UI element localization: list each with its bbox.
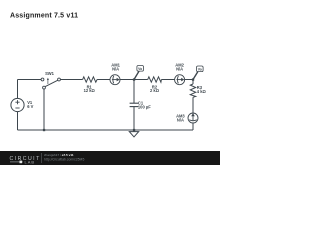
svg-text:12 kΩ: 12 kΩ xyxy=(84,88,96,93)
svg-text:N/A: N/A xyxy=(112,66,119,71)
svg-text:Vo: Vo xyxy=(198,68,202,72)
svg-text:N/A: N/A xyxy=(176,66,183,71)
svg-text:6 V: 6 V xyxy=(27,104,33,109)
svg-text:N/A: N/A xyxy=(177,117,184,122)
svg-text:2 kΩ: 2 kΩ xyxy=(150,88,160,93)
svg-text:4 kΩ: 4 kΩ xyxy=(197,89,207,94)
svg-text:zhangsh17 / a7.5 v11: zhangsh17 / a7.5 v11 xyxy=(44,153,74,157)
svg-text:Vo: Vo xyxy=(138,67,142,71)
svg-text:LAB: LAB xyxy=(25,160,36,165)
svg-text:100 µF: 100 µF xyxy=(138,105,151,110)
svg-text:Assignment 7.5 v11: Assignment 7.5 v11 xyxy=(10,12,78,19)
svg-text:http://circuitlab.com/c25t45: http://circuitlab.com/c25t45 xyxy=(44,157,84,161)
svg-text:SW1: SW1 xyxy=(45,71,55,76)
